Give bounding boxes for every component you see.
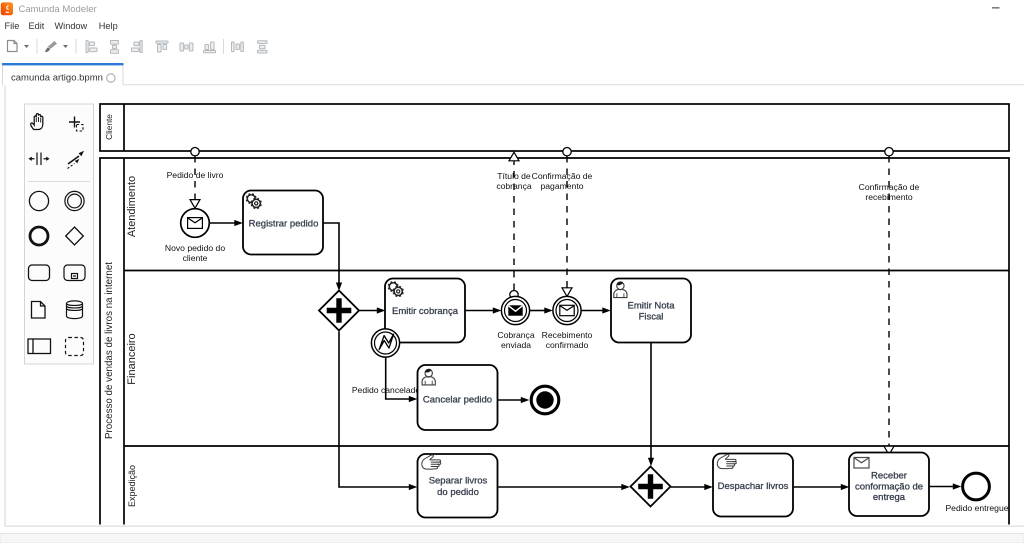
manual hand icon of Separar livros [422, 455, 441, 469]
svg-text:Recebimento: Recebimento [542, 330, 593, 340]
toolbar separator 3 [223, 39, 224, 54]
palette hand tool [31, 114, 43, 130]
label Confirmacao de pagamento [532, 171, 593, 191]
message flow Titulo de cobranca [509, 152, 519, 299]
palette task [29, 265, 50, 281]
message flow Confirmacao de recebimento [884, 148, 894, 455]
task Emitir Nota Fiscal [611, 279, 691, 343]
svg-text:Despachar livros: Despachar livros [718, 481, 789, 492]
toolbar align-center-v icon [111, 41, 119, 54]
label Recebimento confirmado [542, 330, 593, 350]
palette subprocess [64, 265, 85, 281]
pool Processo de vendas de livros na internet [100, 158, 1009, 525]
label Titulo de cobranca [496, 171, 532, 191]
boundary error event on Emitir cobranca [371, 329, 399, 357]
svg-text:recebimento: recebimento [865, 192, 913, 202]
svg-text:Cancelar pedido: Cancelar pedido [423, 395, 492, 406]
message flow Pedido de livro [190, 148, 200, 209]
label Novo pedido do cliente [165, 243, 225, 263]
tab dirty indicator circle [107, 74, 115, 82]
svg-text:Expedição: Expedição [127, 465, 137, 507]
sequence flow Registrar pedido to gateway1 [324, 223, 343, 291]
svg-text:Novo pedido do: Novo pedido do [165, 243, 225, 253]
service gears icon of Emitir cobranca [388, 282, 403, 297]
start event Novo pedido do cliente [181, 209, 210, 238]
palette connect tool [68, 151, 85, 169]
svg-text:Pedido de livro: Pedido de livro [167, 170, 224, 180]
toolbar distribute-v icon [258, 41, 268, 53]
minimize button [992, 7, 1000, 9]
task Emitir cobranca [385, 279, 465, 343]
svg-text:Pedido entregue: Pedido entregue [945, 503, 1008, 513]
svg-text:Pedido cancelado: Pedido cancelado [352, 385, 421, 395]
toolbar distribute-h icon [232, 42, 244, 52]
svg-text:Confirmação de: Confirmação de [859, 182, 920, 192]
active tab [2, 63, 124, 85]
svg-text:Atendimento: Atendimento [126, 176, 138, 237]
toolbar: new file icon [8, 41, 18, 52]
palette data store [67, 301, 83, 319]
sequence flow gateway2 to Despachar livros [671, 484, 713, 490]
palette end event [30, 227, 48, 245]
task Despachar livros [713, 454, 793, 517]
palette intermediate event [65, 191, 84, 210]
sequence flow Despachar livros to Receber conformacao [794, 484, 850, 490]
task Registrar pedido [243, 191, 323, 255]
pool Cliente [100, 104, 1009, 151]
sequence flow start to Registrar pedido [210, 220, 243, 226]
palette participant [28, 339, 51, 354]
svg-text:Cliente: Cliente [104, 114, 114, 140]
svg-text:Registrar pedido: Registrar pedido [249, 219, 319, 230]
sequence flow gateway1 to Emitir cobranca [360, 307, 386, 313]
toolbar caret 2 [63, 45, 68, 48]
sequence flow Cobranca enviada to Recebimento confirmado [530, 307, 553, 313]
gateway1 parallel [319, 291, 359, 331]
svg-text:confirmado: confirmado [546, 340, 589, 350]
sequence flow Emitir cobranca to Cobranca enviada [466, 307, 502, 313]
toolbar align-top icon [156, 41, 168, 52]
palette panel [25, 104, 94, 364]
palette group [66, 338, 84, 356]
gateway2 parallel [631, 467, 671, 507]
palette data object [32, 302, 46, 319]
app icon Camunda [1, 2, 13, 15]
svg-text:Fiscal: Fiscal [639, 312, 664, 323]
svg-text:cobrança: cobrança [496, 181, 532, 191]
label Cobranca enviada [497, 330, 534, 350]
svg-text:Emitir cobrança: Emitir cobrança [392, 306, 459, 317]
task Cancelar pedido [418, 365, 498, 430]
sequence flow boundary error to Cancelar pedido [386, 357, 418, 402]
message flow Confirmacao de pagamento [562, 148, 572, 297]
receive envelope icon of Receber conformacao [854, 458, 869, 469]
toolbar caret 1 [24, 45, 29, 48]
toolbar separator 2 [76, 39, 77, 54]
label Confirmacao de recebimento [859, 182, 920, 202]
toolbar separator 1 [37, 39, 38, 54]
user icon of Cancelar pedido [422, 369, 435, 385]
toolbar align-middle icon [180, 43, 193, 51]
sequence flow Separar livros to gateway2 [499, 484, 630, 490]
toolbar align-bottom icon [204, 42, 216, 53]
sequence flow Cancelar pedido to terminate end [498, 397, 529, 403]
svg-text:Título de: Título de [497, 171, 531, 181]
svg-text:conformação de: conformação de [855, 481, 923, 492]
svg-text:Cobrança: Cobrança [497, 330, 534, 340]
tabbar bottom line [123, 84, 1024, 85]
palette start event [29, 191, 48, 210]
lane divider Atendimento/Financeiro [124, 270, 1009, 272]
user icon of Emitir Nota Fiscal [614, 282, 627, 298]
intermediate catch event Recebimento confirmado [553, 296, 581, 324]
svg-text:enviada: enviada [501, 340, 531, 350]
svg-text:Financeiro: Financeiro [126, 333, 138, 384]
manual hand icon of Despachar livros [717, 454, 736, 468]
task Separar livros do pedido [418, 454, 498, 518]
palette separator [28, 181, 90, 183]
canvas bottom border [5, 526, 1024, 527]
palette space tool [28, 153, 49, 166]
service gears icon of Registrar pedido [246, 194, 261, 209]
sequence flow Receber conformacao to end event [930, 483, 962, 489]
sequence flow Recebimento confirmado to Emitir Nota Fiscal [582, 307, 611, 313]
end event Pedido entregue [963, 473, 990, 500]
svg-text:Processo de vendas de livros n: Processo de vendas de livros na internet [104, 262, 115, 439]
svg-text:Confirmação de: Confirmação de [532, 171, 593, 181]
svg-text:cliente: cliente [183, 253, 208, 263]
svg-text:entrega: entrega [873, 492, 906, 503]
palette lasso tool [69, 117, 83, 132]
task Receber conformacao de entrega [849, 453, 929, 517]
svg-text:Separar livros: Separar livros [429, 476, 488, 487]
toolbar brush icon [45, 41, 57, 52]
svg-text:Emitir Nota: Emitir Nota [628, 300, 676, 311]
intermediate throw event Cobranca enviada [501, 296, 529, 324]
toolbar align-left icon [86, 41, 97, 53]
toolbar align-right icon [132, 41, 143, 53]
sequence flow gateway1 down to Separar livros [339, 332, 417, 491]
sequence flow Emitir Nota Fiscal down to gateway2 [648, 343, 654, 467]
svg-text:Receber: Receber [871, 470, 907, 481]
lane divider Financeiro/Expedicao [124, 445, 1009, 447]
canvas left border [5, 85, 6, 526]
palette gateway [66, 227, 84, 245]
svg-text:pagamento: pagamento [540, 181, 583, 191]
status bar [0, 534, 1024, 543]
terminate end event [531, 386, 559, 414]
svg-text:do pedido: do pedido [437, 487, 479, 498]
